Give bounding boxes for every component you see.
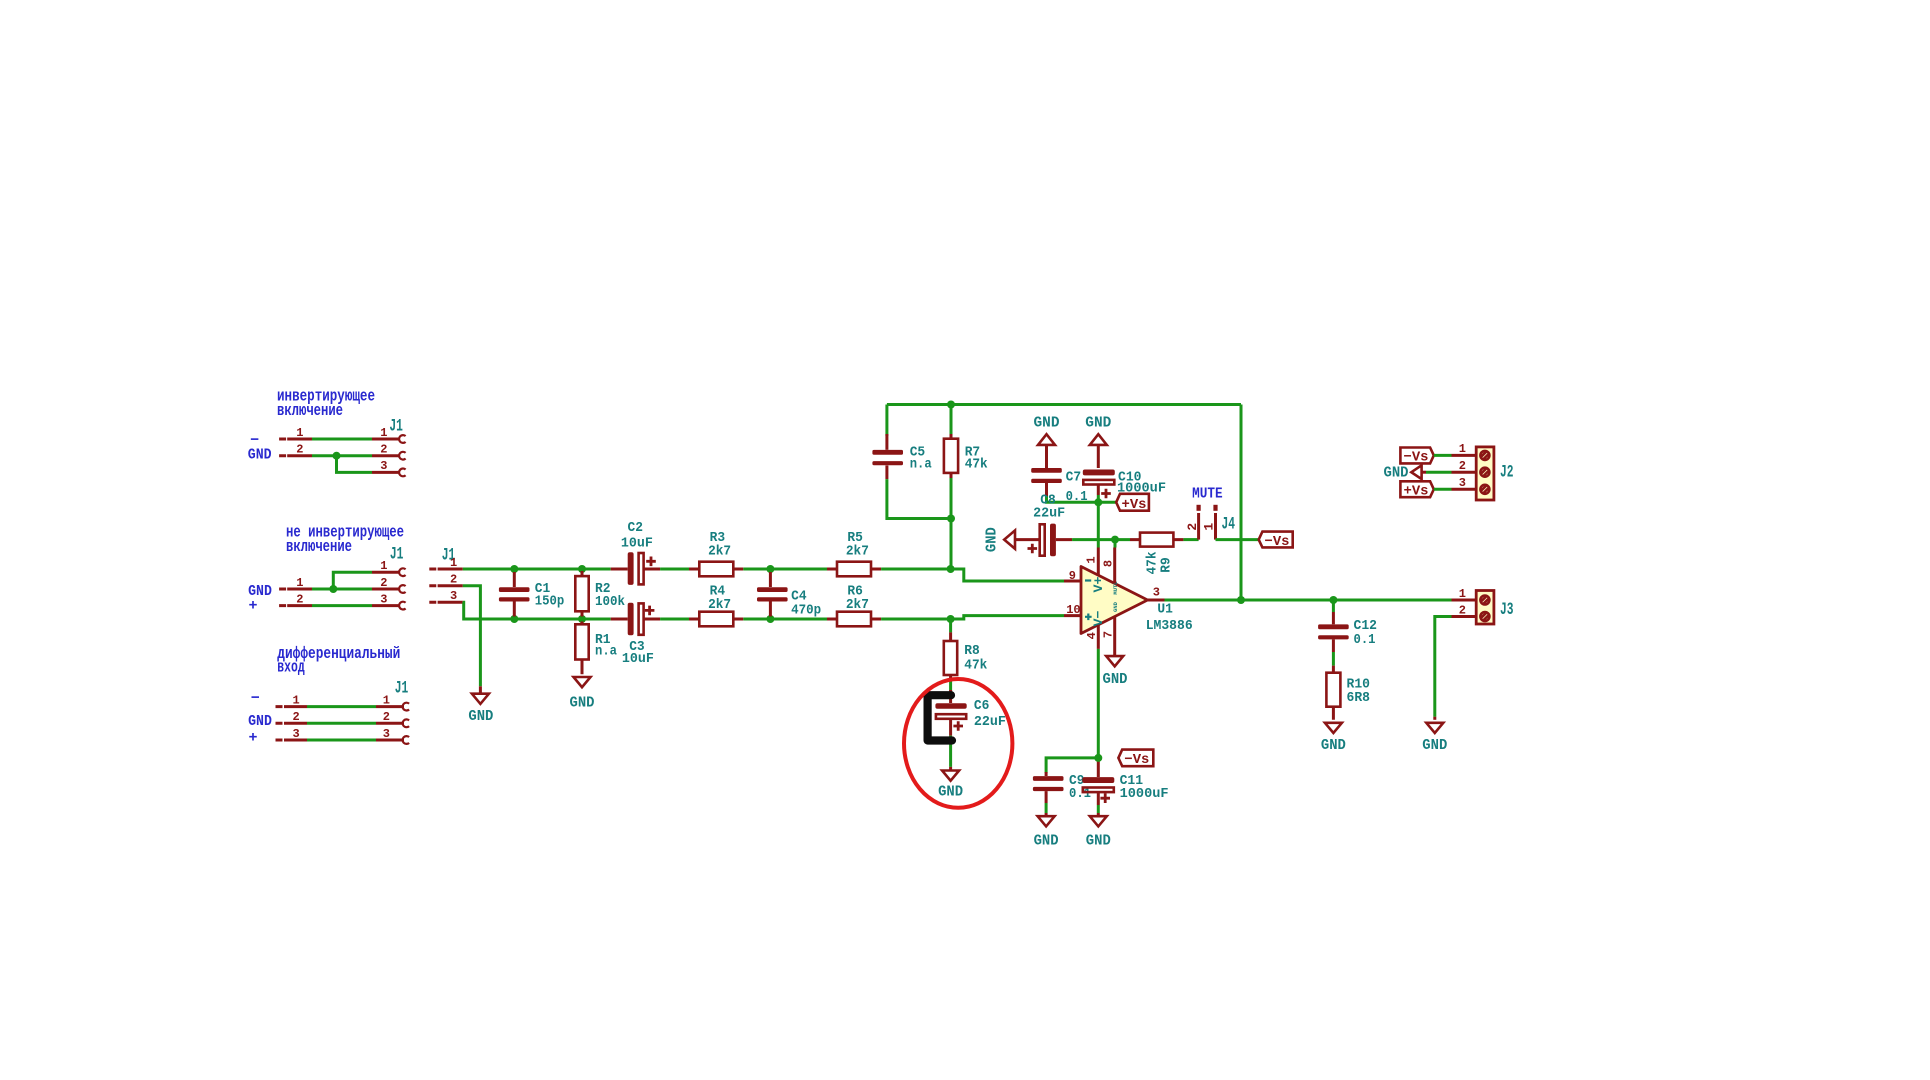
ground (below J3 pin 2) — [1422, 717, 1447, 754]
svg-text:+Vs: +Vs — [1404, 483, 1429, 499]
annotation: figure 1 title (инвертирующее включение) — [277, 387, 375, 420]
svg-text:GND: GND — [468, 708, 493, 725]
svg-text:1: 1 — [450, 556, 457, 570]
ground (left of C8, rotated left) — [984, 527, 1040, 552]
wire GND to J2 pin 2 — [1426, 471, 1452, 474]
wire C8 to R9 — [1072, 538, 1130, 541]
svg-text:GND: GND — [248, 713, 272, 730]
svg-text:2: 2 — [1459, 459, 1466, 473]
wire J4 pin 1 to -Vs flag (crosses trunk) — [1216, 538, 1259, 541]
svg-text:GND: GND — [1086, 833, 1111, 850]
power flag -Vs (below op-amp) — [1118, 750, 1153, 768]
wire op-amp pin 4 down to -Vs node — [1097, 649, 1100, 758]
junction +Vs node — [1094, 498, 1102, 506]
svg-text:0.1: 0.1 — [1354, 632, 1376, 648]
svg-text:GND: GND — [984, 527, 1001, 552]
power flag -Vs (at J4) — [1259, 532, 1293, 550]
pin J2-2 — [1452, 459, 1490, 477]
resistor R6 2k7 — [827, 584, 881, 627]
pin 10 (non-inverting input) — [1064, 603, 1081, 617]
wire +Vs junction down to op-amp pin 1 — [1097, 502, 1100, 547]
svg-text:−Vs: −Vs — [1265, 534, 1290, 550]
wire R4 to R6 — [743, 618, 827, 621]
annotation: red circle around C6 — [904, 679, 1012, 808]
junction (feedback / inverting input) — [947, 565, 955, 573]
pin J4-2 — [1185, 505, 1201, 540]
wire R3 to R5 — [743, 568, 827, 571]
ground (below C11) — [1086, 813, 1111, 850]
pin J4-1 — [1202, 505, 1218, 540]
capacitor C12 0.1 — [1318, 600, 1377, 652]
pin stub left 2 (fig2) — [279, 592, 312, 606]
svg-text:+Vs: +Vs — [1122, 497, 1147, 513]
svg-text:4: 4 — [1085, 632, 1099, 639]
svg-text:1: 1 — [296, 576, 303, 590]
svg-text:150p: 150p — [535, 594, 565, 610]
svg-text:C7: C7 — [1066, 470, 1082, 486]
pin stub left 1 (fig1) — [279, 426, 312, 440]
wire row2 (fig3) — [307, 722, 376, 725]
svg-text:GND: GND — [1112, 601, 1119, 612]
connector J1 (main input) — [429, 546, 463, 604]
svg-text:3: 3 — [1153, 585, 1160, 599]
op-amp U1 LM3886 — [1064, 548, 1193, 657]
resistor R4 2k7 — [689, 584, 743, 627]
svg-text:1: 1 — [292, 693, 299, 707]
svg-text:−Vs: −Vs — [1124, 752, 1149, 768]
svg-text:R9: R9 — [1159, 557, 1175, 573]
junction C1 bottom — [510, 615, 518, 623]
svg-text:n.a: n.a — [595, 644, 618, 660]
resistor R3 2k7 — [689, 530, 743, 576]
svg-text:2: 2 — [296, 443, 303, 457]
svg-text:J3: J3 — [1500, 600, 1514, 620]
junction C4 top — [766, 565, 774, 573]
svg-text:100k: 100k — [595, 594, 625, 610]
svg-text:GND: GND — [1034, 414, 1060, 431]
capacitor C2 10uF (electrolytic) — [611, 520, 660, 585]
wire row1 (fig3) — [307, 705, 376, 708]
svg-text:−: − — [251, 690, 260, 707]
svg-text:C6: C6 — [974, 698, 990, 714]
junction C1 top — [510, 565, 518, 573]
wire top rail down to C5 — [885, 405, 888, 437]
junction R2 top — [578, 565, 586, 573]
connector J1 (figure 3: differential input) — [248, 679, 409, 747]
wire junction to +Vs flag — [1098, 501, 1116, 504]
wire R8 to C6 — [949, 681, 952, 692]
pin stub left 1 (fig3) — [276, 693, 308, 707]
connector pin J1-1 right (fig1) — [372, 426, 406, 443]
connector J3 (speaker output) — [1452, 587, 1514, 624]
svg-text:1: 1 — [296, 426, 303, 440]
svg-text:n.a: n.a — [910, 457, 933, 473]
svg-text:22uF: 22uF — [1033, 506, 1065, 522]
junction (fig1) — [333, 452, 341, 460]
connector pin J1-2 right (fig3) — [376, 710, 409, 727]
ground (above C7, rotated up) — [1034, 414, 1060, 468]
connector J2 (power input) — [1452, 442, 1514, 500]
pin J3-2 — [1452, 603, 1490, 621]
connector pin J1-1 right (fig2) — [372, 559, 406, 576]
annotation: figure 2 title (не инвертирующее включение) — [286, 523, 404, 556]
svg-text:J4: J4 — [1222, 515, 1236, 535]
wire R5 to node (junction with feedback) — [881, 568, 951, 571]
junction (fig2) — [329, 585, 337, 593]
svg-text:2: 2 — [380, 576, 387, 590]
svg-text:2: 2 — [383, 710, 390, 724]
capacitor C4 470p — [757, 572, 821, 619]
svg-text:GND: GND — [1103, 671, 1128, 688]
svg-text:MUTE: MUTE — [1192, 486, 1223, 503]
svg-text:включение: включение — [286, 537, 352, 556]
svg-text:2k7: 2k7 — [846, 544, 869, 560]
svg-text:2k7: 2k7 — [708, 544, 731, 560]
pin stub left 2 (fig1) — [279, 443, 312, 457]
svg-text:J1: J1 — [395, 679, 409, 699]
wire -Vs node left to C9 — [1046, 758, 1098, 773]
svg-text:7: 7 — [1102, 631, 1116, 638]
junction output/feedback — [1237, 596, 1245, 604]
ground (below C9) — [1034, 813, 1059, 850]
pin J1-2 — [429, 573, 463, 587]
svg-text:1: 1 — [1202, 523, 1217, 531]
pin J2-1 — [1452, 442, 1490, 460]
resistor R2 100k — [575, 571, 625, 617]
junction R2/R1 bottom — [578, 615, 586, 623]
pin J3-1 — [1452, 587, 1490, 605]
svg-text:2: 2 — [292, 710, 299, 724]
pin J1-3 — [429, 589, 463, 603]
svg-text:10uF: 10uF — [622, 651, 654, 667]
wire J3 pin 2 to ground — [1435, 617, 1452, 717]
wire jumper to J1-1 (fig2) — [333, 572, 372, 589]
resistor R9 47k — [1130, 533, 1183, 575]
annotation: black marker bracket on C6 — [928, 695, 952, 740]
capacitor C11 1000uF (electrolytic) — [1082, 758, 1168, 805]
wire +Vs flag to J2 pin 3 — [1434, 488, 1452, 491]
svg-text:1000uF: 1000uF — [1120, 786, 1169, 802]
svg-text:3: 3 — [380, 459, 387, 473]
resistor R5 2k7 — [827, 530, 881, 576]
svg-text:1: 1 — [380, 559, 387, 573]
wire J1-2 to ground — [463, 586, 481, 687]
svg-text:GND: GND — [1085, 414, 1111, 431]
ground (above C10, rotated up) — [1085, 414, 1111, 468]
svg-text:3: 3 — [450, 589, 457, 603]
pin stub left 1 (fig2) — [279, 576, 312, 590]
capacitor C7 0.1 — [1031, 468, 1087, 505]
pin 1 (V+) — [1085, 548, 1099, 576]
svg-text:470p: 470p — [791, 603, 821, 619]
wire C9 to ground — [1045, 803, 1048, 813]
junction -Vs node — [1094, 754, 1102, 762]
svg-text:J1: J1 — [390, 545, 404, 565]
pin 3 (output) — [1148, 585, 1165, 600]
svg-text:GND: GND — [938, 784, 963, 801]
wire -Vs flag to J2 pin 1 — [1434, 454, 1452, 457]
wire C11 to ground — [1097, 805, 1100, 813]
connector pin J1-3 right (fig3) — [376, 727, 409, 744]
pin 8 (MUTE) — [1102, 548, 1116, 584]
svg-text:1: 1 — [383, 693, 390, 707]
wire R6 to node — [881, 618, 951, 621]
pin 4 (V-) — [1085, 625, 1099, 649]
resistor R1 n.a — [575, 622, 617, 675]
wire C7 to +Vs junction — [1047, 496, 1099, 502]
svg-text:47k: 47k — [965, 457, 988, 473]
ground (op-amp pin 7) — [1103, 656, 1128, 688]
svg-text:3: 3 — [1459, 476, 1466, 490]
wire output net (pin 3 to J3) — [1165, 599, 1452, 602]
junction C4 bottom — [766, 615, 774, 623]
capacitor C9 0.1 — [1033, 772, 1091, 803]
svg-text:10uF: 10uF — [621, 536, 653, 552]
junction (top rail / R7) — [947, 401, 955, 409]
svg-text:2: 2 — [296, 592, 303, 606]
svg-text:+: + — [249, 598, 258, 615]
svg-text:GND: GND — [248, 447, 272, 464]
pin J1-1 — [429, 556, 463, 570]
pin J2-3 — [1452, 476, 1490, 494]
junction (R7/C5 bottom) — [947, 515, 955, 523]
pin 9 (inverting input) — [1064, 569, 1081, 583]
svg-text:J2: J2 — [1500, 463, 1514, 483]
svg-text:1: 1 — [1459, 587, 1466, 601]
wire node to op-amp pin 10 (jog) — [951, 616, 1064, 619]
svg-text:V+: V+ — [1091, 576, 1106, 592]
svg-text:1: 1 — [1459, 442, 1466, 456]
power flag +Vs (J2 pin 3) — [1400, 481, 1433, 499]
wire C10 to +Vs junction — [1097, 495, 1100, 502]
wire C6 to ground — [949, 736, 952, 767]
junction (R8 / non-inverting input) — [947, 615, 955, 623]
wire C5 bottom to node — [887, 479, 951, 518]
capacitor C8 22uF (electrolytic, mirrored) — [1028, 493, 1073, 557]
svg-text:2k7: 2k7 — [846, 597, 869, 613]
svg-text:8: 8 — [1102, 560, 1116, 567]
svg-text:6R8: 6R8 — [1347, 690, 1371, 706]
wire feedback top rail — [887, 403, 1241, 406]
svg-text:2: 2 — [1185, 523, 1200, 531]
wire pin2 junction to J1-2 and J1-3 (fig1) — [312, 456, 372, 473]
svg-text:9: 9 — [1069, 569, 1076, 583]
ground (below R10) — [1321, 723, 1346, 754]
wire J1-3 down and right to C3 (bottom input rail) — [463, 602, 611, 619]
pin stub left 2 (fig3) — [276, 710, 308, 724]
capacitor C5 n.a — [872, 434, 932, 479]
ground (J2 pin 2, rotated right) — [1384, 465, 1427, 482]
svg-text:−Vs: −Vs — [1404, 450, 1429, 466]
connector J4 (mute jumper) — [1185, 505, 1235, 540]
svg-text:1: 1 — [380, 426, 387, 440]
wire row3 (fig3) — [307, 739, 376, 742]
connector pin J1-3 right (fig2) — [372, 592, 406, 609]
wire pin1 to J1-1 (fig1) — [312, 438, 372, 441]
svg-text:3: 3 — [292, 727, 299, 741]
svg-text:GND: GND — [1321, 737, 1346, 754]
svg-text:GND: GND — [570, 695, 595, 712]
capacitor C3 10uF (electrolytic) — [611, 603, 660, 667]
svg-text:2k7: 2k7 — [708, 597, 731, 613]
svg-text:V−: V− — [1091, 610, 1106, 626]
power flag -Vs (J2 pin 1) — [1400, 448, 1433, 466]
connector pin J1-2 right (fig2) — [372, 576, 406, 593]
ground (below J1-2 wire) — [468, 686, 493, 725]
svg-text:GND: GND — [1034, 833, 1059, 850]
junction mute node — [1111, 536, 1119, 544]
wire pin2 to J1-3 (fig2) — [312, 604, 372, 607]
connector J1 (figure 2: non-inverting hookup) — [248, 545, 406, 615]
svg-text:J1: J1 — [389, 417, 403, 437]
capacitor C6 22uF (electrolytic) — [935, 690, 1006, 736]
connector pin J1-3 right (fig1) — [372, 459, 406, 476]
svg-text:вход: вход — [277, 658, 304, 677]
wire pin1 to J1-2 (fig2) — [312, 588, 372, 591]
wire feedback right trunk (top rail to output) — [1240, 405, 1243, 601]
svg-text:22uF: 22uF — [974, 714, 1006, 730]
svg-text:10: 10 — [1066, 603, 1080, 617]
wire node down to inverting input junction — [950, 519, 953, 570]
wire top rail down to R7 — [950, 405, 953, 436]
connector J1 (figure 1: inverting hookup) — [248, 417, 406, 477]
svg-text:2: 2 — [450, 573, 457, 587]
resistor R7 47k — [944, 434, 988, 478]
ground (below C6) — [938, 767, 963, 801]
annotation: figure 3 title (дифференциальный вход) — [277, 644, 400, 677]
svg-text:GND: GND — [1422, 737, 1447, 754]
ground (below R1) — [570, 677, 595, 712]
wire node to op-amp pin 9 (jog) — [951, 569, 1064, 581]
wire C12 to R10 — [1332, 652, 1335, 666]
pin stub left 3 (fig3) — [276, 727, 308, 741]
svg-text:LM3886: LM3886 — [1146, 618, 1193, 634]
capacitor C1 150p — [499, 572, 564, 617]
svg-text:U1: U1 — [1157, 602, 1173, 618]
svg-text:C2: C2 — [628, 520, 644, 536]
resistor R10 6R8 — [1326, 666, 1370, 720]
svg-text:47k: 47k — [964, 658, 987, 674]
pin 7 (GND) — [1102, 617, 1116, 657]
svg-text:3: 3 — [380, 592, 387, 606]
wire R9 to J4 pin 2 — [1183, 538, 1198, 541]
junction output/C12 — [1329, 596, 1337, 604]
wire J1-1 to C2 (top input rail) — [463, 568, 611, 571]
connector pin J1-1 right (fig3) — [376, 693, 409, 710]
svg-text:GND: GND — [1384, 465, 1409, 482]
resistor R8 47k — [944, 619, 988, 681]
wire C2 to R3 — [660, 568, 689, 571]
svg-text:2: 2 — [380, 443, 387, 457]
wire R7 bottom to node — [950, 478, 953, 519]
svg-text:3: 3 — [383, 727, 390, 741]
svg-text:1: 1 — [1085, 556, 1099, 563]
svg-text:+: + — [249, 730, 258, 747]
svg-text:2: 2 — [1459, 603, 1466, 617]
wire mute node down to op-amp pin 8 — [1114, 540, 1117, 548]
connector pin J1-2 right (fig1) — [372, 443, 406, 460]
wire C3 to R4 — [660, 618, 689, 621]
power flag +Vs — [1116, 494, 1149, 513]
svg-text:включение: включение — [277, 401, 343, 420]
capacitor C10 1000uF (electrolytic) — [1083, 470, 1166, 499]
